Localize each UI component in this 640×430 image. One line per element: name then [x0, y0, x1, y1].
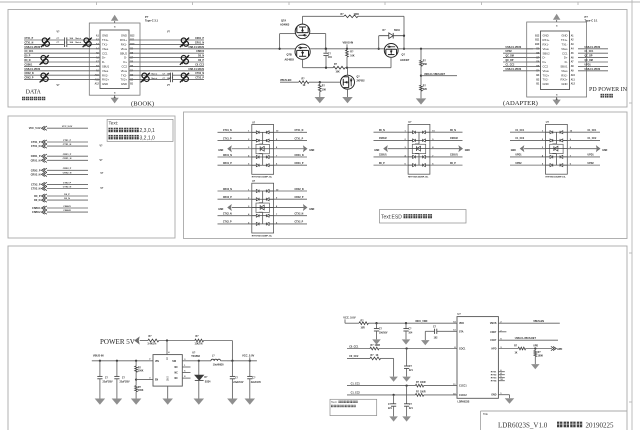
- svg-text:QC_DP: QC_DP: [585, 56, 593, 58]
- title block: [481, 410, 628, 412]
- svg-text:D0_N: D0_N: [450, 130, 456, 132]
- wire C1_CC1 from ADAPTER right pin: [578, 52, 608, 54]
- svg-text:D0_P: D0_P: [25, 56, 31, 58]
- svg-text:RTV1: RTV1: [491, 372, 497, 374]
- svg-text:USB-C1-VBUS: USB-C1-VBUS: [25, 47, 41, 49]
- pin 2 wire CRX2_P: [218, 198, 252, 200]
- ground: [402, 377, 411, 382]
- internal zener: [550, 144, 563, 153]
- svg-text:10uH0630: 10uH0630: [213, 365, 224, 367]
- svg-text:22uF/25V: 22uF/25V: [103, 382, 114, 384]
- svg-text:TX1-: TX1-: [562, 43, 568, 47]
- svg-text:Vbus: Vbus: [543, 69, 550, 73]
- svg-text:COC1: COC1: [459, 349, 466, 351]
- svg-text:CTX1_N: CTX1_N: [223, 130, 232, 132]
- varistor pair V1 on CTX1 pair: [41, 38, 50, 48]
- ground: [162, 399, 173, 405]
- svg-text:CTX2_N: CTX2_N: [31, 188, 41, 191]
- svg-text:RX1-: RX1-: [543, 43, 549, 47]
- connector body: [100, 30, 129, 89]
- internal diodes: [546, 131, 551, 133]
- svg-text:VCC_5.0V: VCC_5.0V: [242, 353, 255, 357]
- svg-text:CTX2_N: CTX2_N: [63, 186, 72, 188]
- svg-text:CTX1_N: CTX1_N: [63, 144, 72, 146]
- ground: [389, 377, 398, 382]
- svg-text:CC1: CC1: [562, 51, 568, 55]
- resistor R? 10K pulldown: [319, 82, 321, 84]
- svg-text:TD1583: TD1583: [191, 355, 200, 358]
- svg-text:VBUS-IN: VBUS-IN: [93, 354, 104, 358]
- svg-text:CRX1_N: CRX1_N: [223, 155, 232, 157]
- net USB-C1-VBUS-DET: [420, 75, 422, 77]
- wire QC_DP from ADAPTER right pin: [578, 57, 608, 59]
- svg-text:MCU_VDD: MCU_VDD: [416, 320, 428, 323]
- svg-text:CC1: CC1: [102, 51, 108, 55]
- svg-text:22uF/10V: 22uF/10V: [251, 382, 262, 384]
- svg-text:TX1-: TX1-: [102, 43, 108, 47]
- wire FB: [159, 340, 195, 342]
- varistor pair V3 on D0 pair: [40, 55, 49, 65]
- svg-text:CRX1_P: CRX1_P: [295, 163, 304, 165]
- svg-text:TX1+: TX1+: [561, 38, 568, 42]
- wire USB-C1-VBUS from ADAPTER right pin: [578, 48, 608, 50]
- svg-text:D+: D+: [123, 60, 127, 64]
- svg-text:D0_N: D0_N: [64, 198, 70, 200]
- svg-text:CSBU2: CSBU2: [450, 138, 459, 140]
- svg-text:VBUS-IN: VBUS-IN: [343, 41, 354, 45]
- svg-text:AO4803: AO4803: [285, 59, 295, 62]
- internal center rail: [555, 132, 557, 144]
- shield top ground arrow: [556, 20, 558, 22]
- wire CRX1_P from DATA pin B11: [129, 39, 204, 41]
- svg-text:CRX1_P: CRX1_P: [223, 163, 232, 165]
- svg-text:C1_CC1: C1_CC1: [588, 130, 598, 132]
- svg-text:22uF/25V: 22uF/25V: [120, 382, 131, 384]
- pin 2 wire C1_CC2: [510, 139, 546, 141]
- svg-text:(ADAPTER): (ADAPTER): [503, 100, 538, 107]
- svg-text:CSBU1: CSBU1: [32, 207, 41, 210]
- wire top rail with resistor R? 100K: [303, 15, 345, 17]
- svg-text:A12: A12: [95, 83, 100, 86]
- svg-text:QC_DP: QC_DP: [506, 60, 514, 62]
- pin 4 wire CTX2_N: [218, 215, 252, 217]
- svg-text:USB-C1-VBUS: USB-C1-VBUS: [506, 69, 522, 71]
- svg-text:3.4K/1%: 3.4K/1%: [148, 343, 157, 346]
- svg-text:GND: GND: [102, 82, 108, 86]
- svg-text:UPD2: UPD2: [588, 163, 595, 165]
- wire C0_CC1 to DATA pin A5: [24, 52, 100, 54]
- svg-text:20190225: 20190225: [586, 422, 615, 430]
- pin 1 wire CRX2_N: [218, 190, 252, 192]
- svg-text:USB-C1-VBUS-DET: USB-C1-VBUS-DET: [515, 338, 537, 340]
- svg-text:QC_DM: QC_DM: [585, 60, 593, 62]
- svg-text:VCC_5.0V: VCC_5.0V: [29, 127, 41, 130]
- HPD port: [551, 346, 556, 350]
- svg-text:D0_P: D0_P: [450, 163, 456, 165]
- svg-text:VBUS: VBUS: [490, 323, 497, 325]
- text note box: [107, 119, 173, 141]
- svg-text:D+: D+: [543, 60, 547, 64]
- pin 4 wire UPD1: [510, 156, 546, 158]
- ground: [131, 399, 142, 405]
- svg-text:CRX1_P: CRX1_P: [63, 154, 72, 156]
- svg-text:CTX2_N: CTX2_N: [223, 213, 232, 215]
- svg-text:GND: GND: [121, 82, 127, 86]
- svg-text:GND: GND: [309, 209, 314, 211]
- svg-text:10K: 10K: [350, 56, 355, 58]
- svg-text:UPD1: UPD1: [515, 155, 522, 157]
- svg-text:100R: 100R: [420, 382, 426, 384]
- svg-text:CSBU1: CSBU1: [379, 155, 388, 157]
- svg-text:RX1+: RX1+: [543, 38, 550, 42]
- svg-text:TX1+: TX1+: [102, 38, 109, 42]
- svg-text:D-: D-: [102, 60, 105, 64]
- connector body: [541, 31, 570, 90]
- internal zener: [412, 144, 425, 153]
- svg-text:CTX1_P: CTX1_P: [295, 138, 304, 140]
- svg-text:CC2: CC2: [121, 65, 127, 69]
- svg-text:GND: GND: [543, 34, 549, 38]
- svg-text:RHYVSDC052MP-10L: RHYVSDC052MP-10L: [408, 177, 429, 179]
- svg-text:FB: FB: [165, 357, 167, 360]
- wire gate rail with resistor R? 10K: [302, 59, 304, 67]
- connector shell: [89, 23, 140, 95]
- svg-text:C1_CC2: C1_CC2: [588, 138, 598, 140]
- pin C0DT stub: [498, 331, 506, 333]
- controller U? LDR6023S: [457, 317, 498, 399]
- svg-text:Text:: Text:: [109, 120, 119, 125]
- wire VDD rail MCU_VDD: [368, 322, 457, 324]
- svg-text:CTX2_P: CTX2_P: [295, 222, 304, 224]
- svg-text:UPD1: UPD1: [585, 64, 592, 66]
- svg-text:QC_DM: QC_DM: [506, 56, 514, 58]
- resistor R? 1K: [299, 81, 309, 84]
- svg-text:D-: D-: [124, 56, 127, 60]
- svg-text:Vbus: Vbus: [102, 69, 109, 73]
- svg-text:100R: 100R: [420, 392, 426, 394]
- svg-text:CTX2_N: CTX2_N: [195, 73, 204, 75]
- shield bottom ground arrow: [556, 97, 558, 100]
- svg-text:2,3,0,1: 2,3,0,1: [140, 128, 156, 134]
- wire D0_P from DATA pin B6: [129, 61, 204, 63]
- svg-text:1K: 1K: [376, 355, 379, 357]
- svg-text:100K: 100K: [538, 356, 544, 358]
- svg-text:CRX2_N: CRX2_N: [63, 172, 72, 174]
- svg-text:GND: GND: [218, 150, 223, 152]
- svg-text:CSBU2: CSBU2: [32, 211, 41, 214]
- wire EN: [135, 378, 137, 380]
- svg-text:Q7A: Q7A: [281, 19, 286, 22]
- svg-text:11K/1%: 11K/1%: [195, 344, 203, 346]
- svg-text:GND: GND: [374, 150, 379, 152]
- ground: [342, 97, 353, 103]
- svg-text:TX2+: TX2+: [120, 78, 127, 82]
- feedback net arrow: [134, 336, 140, 344]
- svg-text:SBU2: SBU2: [120, 51, 128, 55]
- pin 5 wire CTX2_P: [218, 223, 252, 225]
- NC pin stubs: [182, 366, 190, 368]
- ESD chip U? RHYVSDC052MP-10L: [546, 124, 568, 174]
- internal diodes: [252, 131, 256, 133]
- svg-text:CRX1_P: CRX1_P: [31, 155, 41, 158]
- svg-text:STA: STA: [459, 330, 464, 333]
- svg-text:2N7002: 2N7002: [357, 80, 366, 82]
- wire USB-C1-VBUS to ADAPTER left pin: [503, 70, 526, 72]
- svg-text:D0_P: D0_P: [34, 195, 41, 198]
- svg-text:22uF/10V: 22uF/10V: [233, 382, 244, 384]
- frame middle-right section: [184, 112, 628, 239]
- svg-text:RTV3: RTV3: [491, 378, 497, 380]
- svg-text:USB-C1-VBUS-DET: USB-C1-VBUS-DET: [424, 74, 446, 76]
- svg-text:CSBU1: CSBU1: [63, 206, 71, 208]
- svg-text:B10: B10: [535, 44, 540, 46]
- svg-text:10K: 10K: [322, 90, 327, 92]
- svg-text:CRX1_N: CRX1_N: [31, 159, 41, 162]
- svg-text:Not st: Not st: [76, 37, 82, 40]
- svg-text:100K: 100K: [138, 371, 144, 373]
- svg-text:USB-C1-VBUS: USB-C1-VBUS: [188, 47, 204, 49]
- wire D0_N to DATA pin A7: [24, 61, 100, 63]
- wire C0_CC2 from DATA pin B5: [129, 65, 204, 67]
- wire Q7 drain to output rail: [398, 48, 533, 50]
- svg-text:D0_N: D0_N: [25, 60, 31, 62]
- svg-text:CSBU1: CSBU1: [25, 64, 34, 66]
- svg-text:TX2-: TX2-: [121, 73, 127, 77]
- wire USB-C1-VBUS to DATA pin A4: [24, 48, 100, 50]
- resistor R? 100R: [370, 347, 379, 350]
- svg-text:CTX2_P: CTX2_P: [195, 78, 204, 80]
- text note ESD: [380, 210, 467, 224]
- capacitor C? 22uF/25V: [99, 361, 101, 376]
- resistor R? 10R: [345, 322, 359, 324]
- ground: [389, 416, 398, 421]
- capacitor C? 22uF/10V: [249, 361, 251, 376]
- svg-text:C0_CC2: C0_CC2: [349, 355, 359, 358]
- svg-text:UPD: UPD: [533, 346, 538, 348]
- svg-text:C0DT: C0DT: [490, 332, 497, 334]
- wire UPD1 from ADAPTER right pin: [578, 65, 608, 67]
- svg-text:SS34: SS34: [394, 29, 400, 32]
- svg-text:SBU1: SBU1: [102, 65, 110, 69]
- sheet border top ruler: [0, 1, 640, 3]
- svg-text:(BOOK): (BOOK): [131, 101, 154, 108]
- capacitor C? 22uF/25V: [116, 361, 118, 376]
- svg-text:D0_P: D0_P: [379, 163, 385, 165]
- svg-text:C0_CC1: C0_CC1: [25, 51, 35, 53]
- svg-text:RTV4: RTV4: [491, 380, 497, 383]
- svg-text:C1_CC1: C1_CC1: [585, 51, 595, 53]
- wire CRX2_P to DATA pin A11: [24, 79, 100, 81]
- svg-text:C1CC2: C1CC2: [459, 395, 467, 397]
- regulator U? TD1583: [153, 355, 182, 387]
- svg-text:62K: 62K: [423, 89, 428, 91]
- svg-text:CTX2_P: CTX2_P: [223, 222, 232, 224]
- resistor R? 96K detect divider: [420, 48, 422, 50]
- svg-text:USB-C1-VBUS: USB-C1-VBUS: [188, 69, 204, 71]
- svg-text:CRX2_N: CRX2_N: [223, 189, 232, 191]
- resistor R? 62K: [420, 85, 423, 91]
- wire D0_N from DATA pin B7: [129, 57, 204, 59]
- svg-text:D0_N: D0_N: [379, 130, 385, 132]
- svg-text:C1_CC2: C1_CC2: [506, 64, 516, 66]
- wire USB-C1-VBUS to DATA pin A9: [24, 70, 100, 72]
- svg-text:CRX2_N: CRX2_N: [25, 73, 34, 75]
- svg-text:100K: 100K: [354, 14, 360, 16]
- svg-text:CRX1_N: CRX1_N: [63, 158, 72, 160]
- svg-text:EN: EN: [155, 380, 159, 382]
- svg-text:CTX2_P: CTX2_P: [63, 182, 72, 184]
- capacitor C? 102 on STA: [437, 330, 457, 332]
- svg-text:VCC_5.0V: VCC_5.0V: [62, 126, 73, 128]
- svg-text:100R: 100R: [375, 345, 381, 347]
- svg-text:106/10V: 106/10V: [379, 333, 388, 335]
- wire USB-C1-VBUS from DATA pin B4: [129, 70, 204, 72]
- svg-text:CRX2_P: CRX2_P: [25, 78, 34, 80]
- wire CRX1_N from DATA pin B10: [129, 43, 204, 45]
- varistor pair V5 on CRX1 pair: [180, 38, 189, 48]
- svg-text:VBUS-EN: VBUS-EN: [280, 79, 291, 82]
- svg-text:C0_CC1: C0_CC1: [349, 345, 359, 348]
- wire VIN rail: [92, 360, 153, 362]
- wire CSBU2 from DATA pin B8: [129, 52, 204, 54]
- svg-text:CRX2_P: CRX2_P: [223, 197, 232, 199]
- svg-text:C1DT: C1DT: [490, 340, 497, 342]
- svg-text:CSBU1: CSBU1: [450, 155, 459, 157]
- pmos Q7 AO4407: [384, 44, 398, 58]
- internal center rail: [418, 132, 420, 144]
- svg-text:USB-C1-VBUS: USB-C1-VBUS: [585, 69, 601, 71]
- svg-text:VCC_5.0V: VCC_5.0V: [343, 316, 356, 320]
- internal zener: [256, 144, 269, 153]
- internal zener: [256, 203, 269, 212]
- svg-text:SBU1: SBU1: [560, 65, 568, 69]
- svg-text:DATA: DATA: [26, 90, 42, 96]
- svg-text:SBU2: SBU2: [543, 51, 551, 55]
- svg-text:D0_N: D0_N: [34, 199, 41, 202]
- ESD chip U? RHYVSDC052MP-10L: [408, 124, 430, 174]
- wire D0_P to DATA pin A6: [24, 57, 100, 59]
- svg-text:GND: GND: [309, 150, 314, 152]
- svg-text:TX2+: TX2+: [543, 73, 550, 77]
- svg-text:GND: GND: [561, 34, 567, 38]
- varistor pair V7 on CTX2 pair: [141, 73, 150, 83]
- svg-text:U?: U?: [458, 313, 462, 316]
- wire GND pin: [498, 394, 509, 396]
- svg-text:GND: GND: [491, 395, 496, 397]
- wire Q7A source/gate rail: [280, 33, 296, 35]
- svg-text:CTX1_P: CTX1_P: [223, 138, 232, 140]
- wire Q? source to ground: [347, 89, 349, 97]
- capacitor C? 106/10V: [376, 323, 378, 328]
- svg-text:Vbus: Vbus: [561, 47, 568, 51]
- wire CTX1_N to DATA pin A3: [24, 43, 64, 45]
- wire top rail drop to output: [403, 16, 405, 49]
- varistor pair V2 on CTX1 pair right: [83, 38, 92, 48]
- resistor R? 100K: [534, 349, 536, 351]
- svg-text:C1_CC1: C1_CC1: [351, 382, 361, 385]
- svg-text:C1_CC1: C1_CC1: [515, 130, 525, 132]
- svg-text:GND: GND: [543, 82, 549, 86]
- svg-text:1K: 1K: [515, 352, 518, 354]
- svg-text:USB-C1-VBUS: USB-C1-VBUS: [585, 47, 601, 49]
- svg-text:1K: 1K: [303, 85, 306, 87]
- wire QC_DM from ADAPTER right pin: [578, 61, 608, 63]
- ground: [95, 399, 106, 405]
- svg-text:CTX1_P: CTX1_P: [31, 141, 41, 144]
- wire QC_DM to ADAPTER left pin: [503, 57, 526, 59]
- svg-text:CRX2_P: CRX2_P: [31, 169, 41, 172]
- pin 5 wire D0_P: [374, 164, 409, 166]
- ground: [372, 339, 381, 344]
- svg-text:CSBU2: CSBU2: [63, 210, 71, 212]
- svg-text:Vbus: Vbus: [121, 47, 128, 51]
- svg-text:GND: GND: [511, 150, 516, 152]
- shield top ground arrow: [114, 21, 116, 23]
- sheet border right ruler: [631, 0, 633, 430]
- svg-text:Vbus: Vbus: [561, 69, 568, 73]
- pin 2 wire CSBU2: [374, 139, 409, 141]
- svg-text:CSBU2: CSBU2: [196, 51, 205, 53]
- svg-text:Type-C 3.1: Type-C 3.1: [585, 19, 598, 23]
- svg-text:VIN: VIN: [155, 361, 159, 363]
- capacitor C? 221: [393, 395, 395, 404]
- pin 1 wire C1_CC1: [510, 131, 546, 133]
- connector shell: [527, 22, 587, 97]
- net USB-C1-VBUS-DET: [498, 339, 558, 341]
- ground: [531, 364, 540, 369]
- svg-text:P?: P?: [145, 15, 149, 19]
- svg-text:PD POWER IN: PD POWER IN: [589, 87, 628, 93]
- svg-text:CTX2_P: CTX2_P: [31, 183, 41, 186]
- resistor R? 100R: [415, 384, 423, 387]
- svg-text:RTV2: RTV2: [491, 375, 497, 377]
- ground: [315, 97, 326, 103]
- pin 5 wire UPD2: [510, 164, 546, 166]
- wire CRX2_N to DATA pin A10: [24, 74, 100, 76]
- svg-text:NC: NC: [175, 373, 179, 375]
- svg-text:SS34: SS34: [205, 380, 211, 383]
- svg-text:CRX1_N: CRX1_N: [295, 155, 304, 157]
- svg-text:Title: Title: [483, 413, 489, 416]
- svg-text:B12: B12: [535, 35, 540, 37]
- net VBUS-EN: [498, 322, 559, 324]
- svg-text:Q?: Q?: [402, 54, 406, 57]
- pin 5 wire CRX1_P: [218, 164, 252, 166]
- wire USB-C1-VBUS from DATA pin B9: [129, 48, 295, 50]
- svg-text:HPD: HPD: [491, 349, 496, 351]
- svg-text:D0_P: D0_P: [64, 194, 70, 196]
- svg-text:GND: GND: [465, 150, 470, 152]
- svg-text:C1_CC2: C1_CC2: [515, 138, 525, 140]
- resistor R? 11K/1%: [195, 339, 204, 342]
- svg-text:CTX1_N: CTX1_N: [25, 42, 34, 44]
- wire CTX1_P to DATA pin A2: [24, 39, 64, 41]
- svg-text:10R: 10R: [361, 327, 366, 329]
- frame top section: [8, 10, 627, 108]
- resistor R? 100K enable upper: [135, 361, 137, 366]
- svg-text:RHYVSDC052MP-10L: RHYVSDC052MP-10L: [252, 177, 273, 179]
- ground: [245, 399, 256, 405]
- wire to Q? drain: [347, 68, 349, 76]
- svg-text:LDR6023S_V1.0: LDR6023S_V1.0: [498, 422, 548, 430]
- svg-text:GND: GND: [218, 209, 223, 211]
- svg-text:CTX1_P: CTX1_P: [63, 140, 72, 142]
- RTV pin stubs: [498, 371, 504, 373]
- svg-text:RHYVSDC052MP-10L: RHYVSDC052MP-10L: [252, 235, 273, 237]
- ground: [112, 399, 123, 405]
- svg-text:Type-C 3.1: Type-C 3.1: [145, 19, 158, 23]
- svg-text:CSBU2: CSBU2: [379, 138, 388, 140]
